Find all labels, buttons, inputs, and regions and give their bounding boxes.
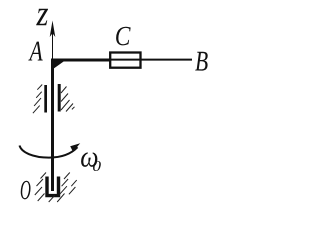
- label C: [116, 27, 131, 46]
- upper bearing right wall: [58, 84, 61, 112]
- label O: [21, 181, 31, 200]
- z axis label: [36, 9, 48, 25]
- angular velocity arc ω0: [20, 146, 78, 158]
- bottom bearing cup at O: [47, 177, 59, 196]
- bottom bearing hatching: [35, 173, 77, 203]
- upper bearing left hatching: [33, 85, 42, 114]
- label A: [28, 42, 42, 61]
- label B: [195, 52, 208, 71]
- horizontal rod C to B (thin): [111, 59, 192, 61]
- z axis line: [52, 30, 54, 59]
- corner gusset at A: [52, 60, 64, 70]
- angular velocity arrowhead: [70, 143, 80, 152]
- label omega subscript 0: [93, 161, 101, 171]
- horizontal rod A to C (thick): [51, 59, 111, 62]
- vertical shaft A to O: [51, 60, 54, 191]
- label omega: [81, 152, 97, 166]
- upper bearing right hatching: [61, 87, 75, 112]
- slider C rectangle: [110, 53, 140, 68]
- upper bearing left wall: [44, 85, 47, 113]
- z axis arrowhead: [50, 21, 56, 38]
